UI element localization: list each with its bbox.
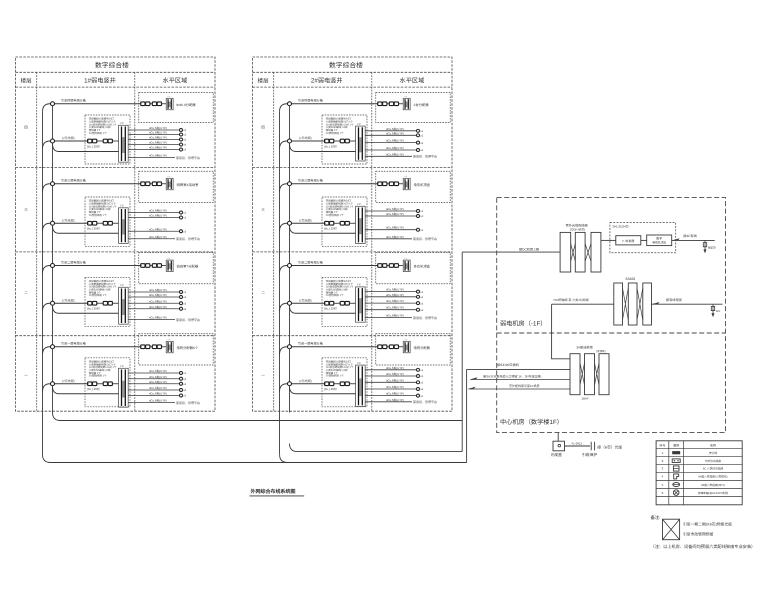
patch cord components P1F3B (88, 301, 92, 305)
svg-text:多台机顶盒: 多台机顶盒 (414, 265, 431, 269)
wire outlet P2F4-1 (365, 369, 416, 371)
svg-text:接DC机房,1根: 接DC机房,1根 (519, 247, 540, 251)
wire copper feed P1F3 (53, 306, 119, 314)
svg-text:F·收发器: F·收发器 (622, 239, 634, 243)
equipment dashed sub-box P2F3 (322, 277, 367, 326)
riser trunk 1 (fiber) panel P2 (279, 112, 281, 455)
svg-text:4Cu,6类(UTP): 4Cu,6类(UTP) (149, 293, 167, 297)
drop symbol 1 (704, 240, 706, 249)
svg-text:4Cu,6类(UTP): 4Cu,6类(UTP) (386, 378, 404, 382)
node (riser tap) P2F2B (288, 221, 292, 225)
equipment dashed sub-box P1F3 (85, 277, 130, 326)
center cross connects (580, 363, 585, 385)
svg-text:引至一层电视分箱: 引至一层电视分箱 (298, 342, 323, 346)
splitter components P1F3A (141, 264, 145, 268)
wire row-A feeder P2F1 (280, 104, 379, 112)
drop symbol 2 (712, 304, 714, 313)
wire horizontal into -1F room (462, 251, 560, 253)
ONU unit (647, 235, 672, 246)
riser trunk 2 (copper) panel P2 (289, 104, 291, 413)
svg-text:至屋顶: 至屋顶 (708, 245, 716, 249)
horizontal-zone dashed box P1F2 (139, 171, 213, 202)
outlet terminal P1F1-2 (180, 133, 183, 136)
svg-text:四: 四 (24, 126, 28, 130)
svg-text:6C 六类信息插座: 6C 六类信息插座 (703, 467, 724, 471)
floor patch panel P1F3 (119, 287, 129, 324)
svg-text:引缆保护: 引缆保护 (582, 452, 597, 457)
svg-text:(7芯光缆): (7芯光缆) (299, 136, 312, 140)
outlet terminal P1F2-2 (180, 216, 183, 219)
splitter components P1F2A (141, 182, 145, 186)
outlet terminal P1F4-3 (180, 382, 183, 385)
outlet terminal P2F4-2 (417, 375, 420, 378)
svg-text:S3100: S3100 (625, 277, 635, 281)
svg-text:至监控、管理平台: 至监控、管理平台 (413, 400, 437, 404)
wire bus 2 (panel1 fiber riser to center room) (43, 455, 467, 463)
wire outlet P1F3-4 (128, 308, 179, 310)
node (riser tap) P2F1B (288, 139, 292, 143)
svg-text:一: 一 (24, 374, 28, 378)
wire row-B feeder P1F1 (43, 141, 89, 149)
node (riser tap) P2F4B (288, 382, 292, 386)
svg-text:4Cu,6类(UTP): 4Cu,6类(UTP) (386, 212, 404, 216)
svg-text:楼层: 楼层 (257, 77, 269, 84)
svg-text:3#配线机柜: 3#配线机柜 (577, 346, 594, 350)
horizontal-zone dashed box P2F3 (376, 253, 450, 284)
outlet terminal P1F4-1 (180, 372, 183, 375)
wire row-B feeder P2F4 (280, 384, 326, 392)
patch cord components P2F4B (325, 382, 329, 386)
svg-text:三: 三 (261, 208, 265, 212)
floor patch panel P1F2 (119, 208, 129, 244)
node (riser tap) P2F3A (288, 264, 292, 268)
node (riser tap) P1F2A (51, 182, 55, 186)
outlet terminal P2F1-4 (417, 149, 420, 152)
svg-text:FL-0612: FL-0612 (572, 442, 583, 446)
panel P1 outer border (16, 57, 216, 411)
node (riser tap) P1F3B (51, 301, 55, 305)
outlet terminal P1F4-5 (180, 394, 183, 397)
horizontal-zone dashed box P2F2 (376, 171, 450, 202)
TV distributor (hatched) P1F3A (166, 260, 173, 271)
wire row-B feeder P1F2 (43, 223, 89, 231)
wire converter link (641, 239, 647, 241)
wire horizontal into center room (467, 368, 570, 370)
svg-text:∩∩: ∩∩ (167, 338, 171, 341)
wire outlet P1F4-5 (128, 395, 179, 397)
wire row-B feeder P2F2 (280, 223, 326, 231)
svg-text:中心机房（数学楼1F）: 中心机房（数学楼1F） (500, 418, 563, 426)
horizontal-zone dashed box P1F4 (139, 334, 213, 365)
wire copper feed P1F1 (53, 144, 119, 152)
svg-text:引至市政管网预留: 引至市政管网预留 (683, 532, 714, 537)
panel P2 outer border (253, 57, 453, 411)
svg-text:(7芯光缆): (7芯光缆) (299, 379, 312, 383)
horizontal-zone dashed box P2F4 (376, 334, 450, 365)
TV distributor (hatched) P2F4A (403, 341, 410, 352)
svg-text:图例: 图例 (673, 443, 679, 447)
svg-text:4Cu,6类(UTP): 4Cu,6类(UTP) (386, 152, 404, 156)
horizontal-zone dashed box P1F1 (139, 93, 213, 123)
wire bus 1 (panel1 copper riser to machine room) (53, 413, 463, 421)
wire outlet P2F2-2 (365, 215, 416, 217)
svg-text:水平区域: 水平区域 (163, 76, 188, 84)
wire outlet P1F4-2 (128, 378, 179, 380)
outlet terminal P2F2-2 (417, 215, 420, 218)
svg-text:引至一层电视分箱: 引至一层电视分箱 (61, 342, 86, 346)
svg-text:(6c,) 25对: (6c,) 25对 (324, 307, 337, 311)
svg-text:86型六类插座(六类模块): 86型六类插座(六类模块) (699, 475, 728, 479)
wire converter output (arrow) (672, 239, 715, 241)
patch cord components P1F1B (88, 139, 92, 143)
wire outlet P1F1-3 (128, 139, 179, 141)
wire S3100 input (552, 303, 614, 305)
wire outlet P1F4-3 (128, 383, 179, 385)
wire uplink P2F4 (365, 401, 412, 403)
wire row-B feeder P1F3 (43, 303, 89, 311)
svg-text:75Ω同轴缆 至 六类4对线缆: 75Ω同轴缆 至 六类4对线缆 (553, 298, 589, 302)
wire outlet P1F4-1 (128, 372, 179, 374)
svg-text:4Cu,6类(UTP): 4Cu,6类(UTP) (386, 314, 404, 318)
svg-text:4Cu,6类(UTP): 4Cu,6类(UTP) (149, 141, 167, 145)
svg-text:4Cu,6类(UTP): 4Cu,6类(UTP) (149, 375, 167, 379)
floor patch panel P2F1 (356, 126, 366, 161)
outlet terminal P2F4-3 (417, 381, 420, 384)
svg-text:(含理线): (含理线) (596, 349, 606, 353)
wire outlet P2F2-1 (365, 210, 416, 212)
center rack 3 (599, 354, 609, 395)
S3100 rack 1 (614, 283, 623, 325)
svg-text:4Cu,6类(UTP): 4Cu,6类(UTP) (386, 139, 404, 143)
svg-text:4Cu,6类(UTP): 4Cu,6类(UTP) (149, 369, 167, 373)
reserved fiber symbol (663, 519, 680, 540)
wire outlet P2F3-3 (365, 302, 416, 304)
svg-text:四: 四 (261, 126, 265, 130)
svg-text:引至二层电视分箱: 引至二层电视分箱 (298, 260, 323, 264)
wire row-A feeder P1F2 (43, 184, 142, 192)
svg-text:2U壁挂机柜 1个: 2U壁挂机柜 1个 (326, 213, 344, 217)
wire outlet P1F2-1 (128, 212, 179, 214)
splitter components P2F1A (378, 102, 382, 106)
svg-text:至监控、管理平台: 至监控、管理平台 (176, 318, 200, 322)
wire fiber exit (557, 433, 559, 442)
machine room outer dashed box (497, 197, 726, 432)
svg-text:接4C有线: 接4C有线 (683, 234, 697, 238)
fiber splice box (553, 441, 565, 451)
svg-text:4Cu,6类(UTP): 4Cu,6类(UTP) (386, 372, 404, 376)
svg-text:4Cu,6类(UTP): 4Cu,6类(UTP) (149, 146, 167, 150)
svg-text:W/F: W/F (716, 310, 721, 313)
panel P2 column lines (273, 72, 275, 411)
wire S3100 output (arrow) (652, 303, 723, 305)
svg-text:至监控、管理平台: 至监控、管理平台 (176, 237, 200, 241)
ODF cross connects (571, 244, 576, 262)
svg-text:引至四层电视分箱: 引至四层电视分箱 (298, 99, 323, 103)
patch cord components P2F2B (325, 221, 329, 225)
TV distributor (hatched) P2F2A (403, 178, 410, 189)
svg-text:备注:: 备注: (651, 515, 661, 520)
wire bus 3 (panel2 copper riser) (290, 444, 463, 452)
svg-text:4Cu,6类(UTP): 4Cu,6类(UTP) (149, 305, 167, 309)
svg-text:外网综合布线系统图: 外网综合布线系统图 (250, 488, 296, 495)
legend table frame (656, 441, 742, 505)
svg-text:∩∩: ∩∩ (167, 257, 171, 260)
wire outlet P1F1-4 (128, 144, 179, 146)
floor patch panel P1F1 (119, 125, 129, 162)
svg-text:引至四层电视分箱: 引至四层电视分箱 (61, 99, 86, 103)
outlet terminal P1F3-2 (180, 296, 183, 299)
wire uplink P2F1 (365, 155, 412, 157)
svg-text:4Cu,6类(UTP): 4Cu,6类(UTP) (149, 131, 167, 135)
svg-text:至监控、管理平台: 至监控、管理平台 (176, 156, 200, 160)
svg-text:至监控、管理平台: 至监控、管理平台 (413, 316, 437, 320)
panel P1 header row lines (16, 71, 216, 73)
S3100 rack 3 (643, 283, 652, 325)
svg-text:4Cu,6类(UTP): 4Cu,6类(UTP) (149, 299, 167, 303)
panel P1 column lines (36, 72, 38, 411)
svg-text:(7芯光缆): (7芯光缆) (299, 218, 312, 222)
wire copper feed P1F2 (53, 226, 119, 234)
svg-text:(7芯光缆): (7芯光缆) (62, 218, 75, 222)
svg-text:电信机顶盒: 电信机顶盒 (414, 183, 431, 187)
patch cord components P2F3B (325, 301, 329, 305)
horizontal-zone dashed box P1F3 (139, 253, 213, 284)
svg-text:2#弱电竖井: 2#弱电竖井 (311, 77, 343, 85)
wire copper feed P2F3 (290, 306, 356, 314)
riser trunk 2 (copper) panel P1 (52, 104, 54, 413)
svg-text:4Cu,6类(UTP): 4Cu,6类(UTP) (149, 386, 167, 390)
svg-text:光纤信息插座: 光纤信息插座 (705, 459, 721, 463)
svg-text:(7芯光缆): (7芯光缆) (62, 136, 75, 140)
wire outlet P2F2-3 (365, 229, 416, 231)
wire outlet P1F1-2 (128, 134, 179, 136)
S3100 rack 2 (628, 283, 637, 325)
svg-text:FC: FC (357, 284, 361, 287)
outlet terminal P1F1-3 (180, 138, 183, 141)
wire outlet P1F1-1 (128, 129, 179, 131)
wire outlet P1F3-3 (128, 302, 179, 304)
svg-text:(7芯光缆): (7芯光缆) (62, 298, 75, 302)
equipment dashed sub-box P2F2 (322, 197, 367, 246)
svg-text:FC: FC (120, 284, 124, 287)
svg-text:引至一期二期(X6芯)预留光缆: 引至一期二期(X6芯)预留光缆 (683, 521, 732, 526)
patch cord components P2F1B (325, 139, 329, 143)
riser trunk 1 (fiber) panel P1 (42, 112, 44, 455)
outlet terminal P1F3-4 (180, 307, 183, 310)
wire outlet P2F1-1 (365, 130, 416, 132)
node (riser tap) P2F4A (288, 345, 292, 349)
svg-text:引至二层电视分箱: 引至二层电视分箱 (61, 260, 86, 264)
TV distributor (hatched) P1F2A (166, 178, 173, 189)
wire outlet P2F4-5 (365, 395, 416, 397)
media converter (616, 236, 641, 245)
wire outlet P2F4-4 (365, 388, 416, 390)
svg-text:1BAY: 1BAY (581, 397, 588, 401)
svg-text:4Cu,6类(UTP): 4Cu,6类(UTP) (149, 392, 167, 396)
wire copper feed P2F1 (290, 144, 356, 152)
wire outlet P1F1-5 (128, 149, 179, 151)
equipment dashed sub-box P1F1 (85, 115, 130, 164)
splitter components P2F2A (378, 182, 382, 186)
svg-text:2U壁挂机柜 1个: 2U壁挂机柜 1个 (89, 293, 107, 297)
svg-text:FC: FC (120, 365, 124, 368)
wire outlet P2F3-2 (365, 296, 416, 298)
svg-text:引至三层电视分箱: 引至三层电视分箱 (298, 179, 323, 183)
svg-text:3台分配器: 3台分配器 (414, 103, 430, 107)
svg-text:∩∩: ∩∩ (404, 95, 408, 98)
floor patch panel P1F4 (119, 368, 129, 407)
wire splice link (565, 445, 591, 447)
svg-text:(6c,) 25对: (6c,) 25对 (87, 144, 100, 148)
ODF rack 2 (575, 232, 585, 272)
svg-text:4Cu,6类(UTP): 4Cu,6类(UTP) (386, 306, 404, 310)
svg-text:FC: FC (357, 203, 361, 206)
svg-text:4Cu,6类(UTP): 4Cu,6类(UTP) (149, 316, 167, 320)
transceiver dashed cabinet box (610, 223, 676, 253)
wire row-B feeder P2F3 (280, 303, 326, 311)
svg-text:(6c,) 25对: (6c,) 25对 (324, 144, 337, 148)
wire outlet P1F2-3 (128, 230, 179, 232)
wire outlet P1F3-1 (128, 291, 179, 293)
svg-text:(6c,) 25对: (6c,) 25对 (87, 307, 100, 311)
ODF rack 1 (560, 232, 571, 272)
svg-text:(7芯光缆): (7芯光缆) (62, 379, 75, 383)
patch cord components P1F4B (88, 382, 92, 386)
svg-text:多媒体箱(含AC220V电源): 多媒体箱(含AC220V电源) (698, 491, 729, 495)
outlet terminal P1F3-3 (180, 302, 183, 305)
wire uplink P2F3 (365, 317, 412, 319)
svg-text:4Cu,6类(UTP): 4Cu,6类(UTP) (149, 136, 167, 140)
svg-text:4Cu,6类(UTP): 4Cu,6类(UTP) (149, 227, 167, 231)
node (riser tap) P2F1A (288, 102, 292, 106)
wire copper feed P2F4 (290, 386, 356, 394)
wire uplink P1F3 (128, 319, 175, 321)
node (riser tap) P2F2A (288, 182, 292, 186)
svg-text:电视机顶盒: 电视机顶盒 (652, 240, 666, 244)
node (riser tap) P1F4A (51, 345, 55, 349)
wire uplink P2F2 (365, 238, 412, 240)
center rack 2 (585, 354, 595, 395)
wire outlet P2F4-2 (365, 375, 416, 377)
svg-text:4Cu,6类(UTP): 4Cu,6类(UTP) (386, 146, 404, 150)
svg-text:电视分配器6个: 电视分配器6个 (177, 346, 199, 350)
svg-text:4Cu,6类(UTP): 4Cu,6类(UTP) (149, 399, 167, 403)
wire outlet P2F3-1 (365, 291, 416, 293)
equipment dashed sub-box P1F2 (85, 197, 130, 246)
TV distributor (hatched) P1F4A (166, 341, 173, 352)
wire outlet P2F1-4 (365, 149, 416, 151)
svg-text:∩∩: ∩∩ (167, 95, 171, 98)
svg-text:2U壁挂机柜 1个: 2U壁挂机柜 1个 (89, 131, 107, 135)
svg-text:(7芯光缆): (7芯光缆) (299, 298, 312, 302)
outlet terminal P2F4-1 (417, 368, 420, 371)
splice terminal bars (590, 442, 592, 451)
svg-text:4Cu,6类(UTP): 4Cu,6类(UTP) (149, 126, 167, 130)
horizontal-zone dashed box P2F1 (376, 93, 450, 123)
outlet terminal P2F3-3 (417, 302, 420, 305)
svg-text:4Cu,6类(UTP): 4Cu,6类(UTP) (386, 288, 404, 292)
equipment dashed sub-box P1F4 (85, 358, 130, 407)
svg-text:4Cu,6类(UTP): 4Cu,6类(UTP) (149, 209, 167, 213)
wire outlet P2F1-3 (365, 142, 416, 144)
TV distributor (hatched) P1F1A (166, 98, 173, 109)
svg-text:数字综合楼: 数字综合楼 (95, 61, 129, 69)
wire outlet P1F2-2 (128, 217, 179, 219)
outlet terminal P2F3-1 (417, 290, 420, 293)
panel P1 floor separator lines (16, 167, 216, 169)
TV distributor (hatched) P2F1A (403, 98, 410, 109)
svg-text:(6c,) 25对: (6c,) 25对 (324, 227, 337, 231)
wire outdoor trunk (arrow) (469, 388, 571, 390)
svg-text:2U壁挂机柜 1个: 2U壁挂机柜 1个 (89, 213, 107, 217)
outlet terminal P1F1-5 (180, 148, 183, 151)
node (riser tap) P1F1A (51, 102, 55, 106)
svg-text:接3F(大对数电缆入口预留 1F、2F电话交换): 接3F(大对数电缆入口预留 1F、2F电话交换) (483, 374, 541, 378)
svg-text:序号: 序号 (659, 443, 665, 447)
wire row-A feeder P1F3 (43, 266, 142, 274)
node (riser tap) P1F3A (51, 264, 55, 268)
wire S3100 downlink (552, 304, 570, 359)
svg-text:2#1-2U24芯: 2#1-2U24芯 (613, 224, 629, 228)
svg-text:FC: FC (120, 205, 124, 208)
svg-text:4Cu,6类(UTP): 4Cu,6类(UTP) (386, 293, 404, 297)
node (riser tap) P1F4B (51, 382, 55, 386)
svg-text:1#弱电竖井: 1#弱电竖井 (84, 77, 116, 85)
svg-text:4Cu,6类(UTP): 4Cu,6类(UTP) (149, 288, 167, 292)
splitter components P1F1A (141, 102, 145, 106)
wire outlet P1F4-4 (128, 389, 179, 391)
outlet terminal P1F1-4 (180, 143, 183, 146)
svg-text:至监控、管理平台: 至监控、管理平台 (413, 155, 437, 159)
svg-text:86型六类插座(双口): 86型六类插座(双口) (701, 483, 725, 487)
svg-text:(6c,) 25对: (6c,) 25对 (87, 387, 100, 391)
svg-text:4Cu,6类(UTP): 4Cu,6类(UTP) (149, 154, 167, 158)
wire copper feed P2F2 (290, 226, 356, 234)
ODF rack 3 (591, 232, 601, 272)
svg-text:(6c,) 25对: (6c,) 25对 (87, 227, 100, 231)
svg-text:电视分配器: 电视分配器 (414, 346, 431, 350)
svg-text:FC: FC (357, 362, 361, 365)
svg-text:4Cu,6类(UTP): 4Cu,6类(UTP) (386, 235, 404, 239)
wire vertical feed to 1F center room (466, 369, 468, 462)
outlet terminal P2F1-2 (417, 134, 420, 137)
outlet terminal P1F4-2 (180, 377, 183, 380)
wire row-B feeder P2F1 (280, 141, 326, 149)
wire outlet P2F3-4 (365, 309, 416, 311)
outlet terminal P2F4-5 (417, 394, 420, 397)
svg-text:室外配线架引至1F机房: 室外配线架引至1F机房 (509, 384, 540, 388)
wire row-B feeder P1F4 (43, 384, 89, 392)
wire phone trunk (arrow) (471, 379, 571, 381)
wire row-A feeder P1F1 (43, 104, 142, 112)
svg-text:接有线电视: 接有线电视 (666, 298, 683, 302)
svg-text:光缆盒: 光缆盒 (551, 452, 563, 457)
svg-text:4Cu,6类(UTP): 4Cu,6类(UTP) (386, 127, 404, 131)
wire row-A feeder P2F3 (280, 266, 379, 274)
svg-text:4Cu,6类(UTP): 4Cu,6类(UTP) (386, 207, 404, 211)
svg-text:安全网: 安全网 (709, 451, 717, 455)
wire row-A feeder P1F4 (43, 347, 142, 355)
splitter components P2F4A (378, 345, 382, 349)
svg-text:接S3100交换机: 接S3100交换机 (497, 363, 520, 367)
svg-text:4Cu,6类(UTP): 4Cu,6类(UTP) (386, 385, 404, 389)
wire uplink P1F4 (128, 402, 175, 404)
svg-text:FC: FC (357, 123, 361, 126)
TV distributor (hatched) P2F3A (403, 260, 410, 271)
svg-text:棋牌室&活动室: 棋牌室&活动室 (177, 183, 200, 187)
wire uplink P1F1 (128, 157, 175, 159)
wire outlet P2F1-2 (365, 134, 416, 136)
